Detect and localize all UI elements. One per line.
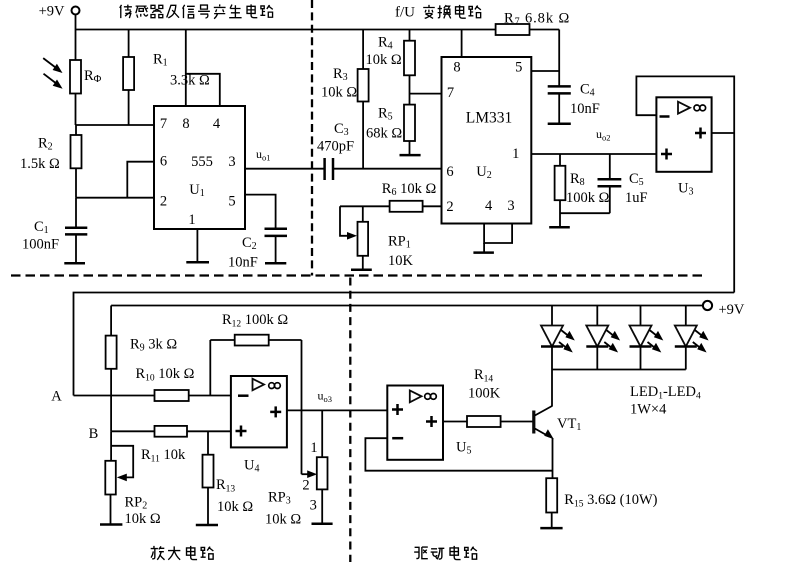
svg-text:470pF: 470pF [317, 139, 354, 155]
svg-text:R9 3k Ω: R9 3k Ω [130, 337, 177, 354]
capacitor C1 [75, 198, 77, 228]
svg-text:6: 6 [160, 154, 167, 170]
title 放大电路 [151, 546, 214, 560]
capacitor C3 [323, 158, 326, 180]
svg-text:+9V: +9V [39, 4, 65, 20]
op-amp U4 triangle [253, 379, 265, 391]
wire +9V bottom rail [111, 305, 703, 307]
U3 minus input [660, 115, 670, 118]
op-amp U4 box [231, 376, 287, 447]
op-amp U3 triangle [678, 102, 690, 114]
dashed divider vertical top [311, 0, 313, 276]
svg-text:10k Ω: 10k Ω [321, 85, 357, 101]
svg-text:2: 2 [160, 194, 167, 210]
svg-text:1.5k Ω: 1.5k Ω [20, 156, 60, 172]
resistor R9 [110, 306, 112, 336]
resistor R3 [362, 30, 364, 70]
U3 plus output [695, 132, 706, 135]
capacitor C4 [548, 85, 571, 88]
svg-text:10K: 10K [388, 253, 414, 269]
op-amp U5 box [387, 386, 443, 460]
wire U3 output [712, 132, 735, 134]
+9V terminal (bottom-right) [703, 301, 712, 310]
LED4 [675, 306, 709, 370]
svg-text:1: 1 [310, 440, 317, 456]
wire R12 row [210, 339, 301, 341]
wire pin4 jog [186, 74, 220, 106]
title 驱动电路 [414, 546, 477, 560]
svg-text:f/U: f/U [395, 5, 415, 21]
svg-text:B: B [89, 426, 99, 442]
RP1 wiper arrow [340, 206, 348, 236]
svg-text:R7 6.8k Ω: R7 6.8k Ω [504, 11, 570, 28]
resistor R7 [496, 24, 530, 35]
wire pin8 stub [185, 30, 187, 107]
svg-text:3: 3 [228, 154, 235, 170]
op-amp U5 triangle [410, 390, 422, 402]
svg-text:A: A [51, 389, 62, 405]
svg-text:5: 5 [228, 194, 235, 210]
wire pin7 row [76, 124, 155, 126]
svg-text:8: 8 [182, 116, 189, 132]
wire U3 feedback loop [636, 76, 734, 292]
photoresistor RPhi [75, 30, 77, 61]
svg-text:10k Ω: 10k Ω [125, 511, 161, 527]
svg-text:2: 2 [302, 478, 309, 494]
svg-text:2: 2 [446, 199, 453, 215]
U4 plus input [236, 430, 247, 433]
svg-text:6: 6 [446, 164, 453, 180]
svg-text:10k Ω: 10k Ω [217, 499, 253, 515]
wire pin7 row LM331 [410, 93, 442, 95]
svg-text:10nF: 10nF [570, 101, 600, 117]
wire pin8 stub LM331 [461, 30, 463, 58]
wire U3-output routing line [74, 293, 735, 396]
wire LED cathode rail [552, 369, 686, 371]
dashed divider horizontal [11, 274, 704, 276]
svg-text:1W×4: 1W×4 [630, 402, 667, 418]
+9V terminal (top-left) [72, 7, 80, 15]
svg-text:100nF: 100nF [22, 237, 59, 253]
U5 plus input [392, 408, 403, 411]
svg-text:8: 8 [453, 60, 460, 76]
svg-text:100k Ω: 100k Ω [566, 190, 610, 206]
svg-text:R6 10k Ω: R6 10k Ω [382, 181, 437, 198]
RP2 wiper arrow [111, 446, 133, 478]
svg-text:R11 10k: R11 10k [141, 447, 186, 465]
svg-text:7: 7 [447, 85, 454, 101]
wire pin6 jog [127, 162, 154, 198]
wire u02 row (pin1 to U3 +) [531, 153, 656, 155]
U5 plus output [426, 420, 437, 423]
potentiometer RP3 [321, 410, 323, 457]
svg-text:1: 1 [188, 212, 195, 228]
svg-text:1: 1 [512, 146, 519, 162]
svg-text:10nF: 10nF [228, 255, 258, 271]
title 传感器及信号产生电路 [120, 4, 273, 18]
resistor R6 [390, 201, 423, 212]
capacitor C2 [265, 227, 288, 230]
resistor R10 [155, 390, 189, 401]
wire pin2 row with R6 [340, 205, 442, 207]
U3 plus input [661, 153, 672, 156]
resistor R2 [75, 125, 77, 135]
wire U5 output row with R14 [443, 421, 533, 423]
svg-text:+9V: +9V [719, 302, 745, 318]
resistor R13 [207, 431, 209, 454]
light arrow 2 [44, 74, 63, 89]
svg-text:4: 4 [485, 198, 493, 214]
potentiometer RP2 [110, 431, 112, 461]
svg-text:1uF: 1uF [625, 190, 648, 206]
resistor R12 [235, 335, 269, 346]
U4 minus input [238, 394, 249, 397]
dashed divider vertical bottom [349, 278, 351, 563]
wire pin2 row [76, 197, 154, 199]
LED2 [586, 306, 620, 370]
resistor R5 [404, 105, 415, 141]
svg-text:10k Ω: 10k Ω [265, 512, 301, 528]
svg-text:3.3k Ω: 3.3k Ω [170, 73, 210, 89]
IC LM331 box U2 [442, 57, 532, 224]
transistor VT1 [532, 411, 535, 434]
capacitor C5 [609, 154, 611, 179]
svg-text:3: 3 [507, 198, 514, 214]
node B wire [111, 430, 231, 432]
svg-text:5: 5 [515, 60, 522, 76]
RP3 wiper arrow [302, 473, 309, 475]
resistor R14 [467, 416, 501, 427]
wire R12 right drop to RP3 wiper [301, 340, 303, 474]
wire u03 row (U4 out to U5 +) [287, 409, 387, 411]
wire pin5 stub [531, 70, 559, 72]
wire u01 output row (555 pin3 to LM331 pin6) [245, 168, 325, 170]
wire top supply rail [76, 29, 560, 31]
LED1 [541, 306, 575, 370]
light arrow 1 [43, 58, 62, 73]
svg-text:7: 7 [160, 116, 167, 132]
svg-text:100K: 100K [468, 386, 501, 402]
ground C1 [64, 262, 85, 265]
potentiometer RP1 [362, 206, 364, 222]
U4 plus output [270, 411, 281, 414]
wire U5 feedback loop [365, 438, 552, 471]
resistor R4 [409, 30, 411, 41]
wire terminal to rail [75, 15, 77, 30]
ground R5 [400, 154, 421, 157]
svg-text:555: 555 [191, 154, 213, 170]
wire R12 left drop [209, 340, 211, 396]
wire rail end drop to C4 [558, 30, 560, 87]
resistor R11 [155, 426, 188, 437]
node A wire [74, 395, 231, 397]
op 555 box U1 [154, 106, 245, 229]
resistor R1 [128, 30, 130, 58]
svg-text:3: 3 [310, 498, 317, 514]
svg-text:R10 10k Ω: R10 10k Ω [136, 366, 195, 384]
svg-text:LM331: LM331 [466, 110, 513, 127]
resistor R15 [546, 478, 557, 512]
ground 555 pin1 [196, 229, 198, 262]
svg-text:4: 4 [213, 116, 221, 132]
svg-text:10k Ω: 10k Ω [366, 52, 402, 68]
U5 minus input [392, 437, 403, 440]
wire pin5 to C2 [245, 195, 276, 229]
svg-text:LED1-LED4: LED1-LED4 [630, 384, 701, 402]
LED3 [630, 306, 664, 370]
op-amp U3 box [656, 97, 711, 172]
resistor R8 [559, 154, 561, 166]
ground LM331 pins 4,3 [484, 224, 512, 244]
svg-text:68k Ω: 68k Ω [366, 126, 402, 142]
